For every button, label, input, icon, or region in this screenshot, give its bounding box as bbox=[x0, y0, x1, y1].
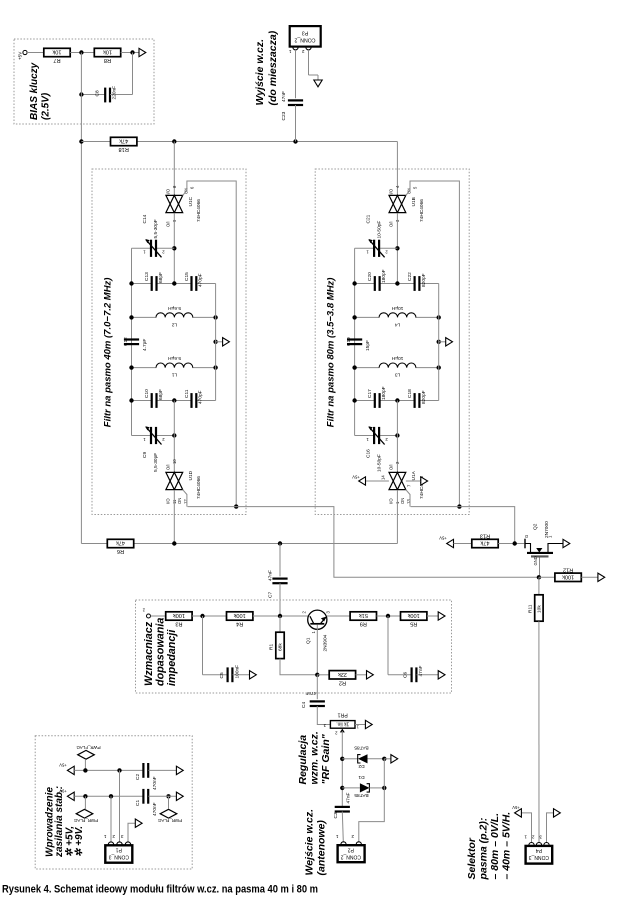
svg-text:C16: C16 bbox=[365, 449, 371, 458]
svg-text:10-50pF: 10-50pF bbox=[376, 221, 382, 239]
wire: P1 pin3 to ground arrow bbox=[128, 819, 142, 842]
node: D1 tap bbox=[340, 786, 344, 790]
svg-text:R13: R13 bbox=[480, 533, 490, 539]
svg-text:47nF: 47nF bbox=[305, 690, 316, 696]
svg-text:10µH: 10µH bbox=[391, 305, 403, 311]
node: R9/R5 junction bbox=[386, 614, 390, 618]
svg-text:C22: C22 bbox=[407, 272, 413, 281]
svg-text:R5: R5 bbox=[410, 621, 417, 627]
svg-text:47k: 47k bbox=[116, 540, 125, 546]
svg-text:O/I: O/I bbox=[389, 464, 394, 470]
BIAS kluczy dashed box bbox=[14, 39, 154, 124]
svg-text:+5V: +5V bbox=[18, 51, 23, 60]
+9V rail arrow bbox=[59, 789, 143, 801]
svg-text:R9: R9 bbox=[360, 621, 367, 627]
resistor R8 10k bbox=[94, 48, 139, 63]
svg-text:100k: 100k bbox=[173, 612, 185, 618]
svg-text:Q1: Q1 bbox=[306, 637, 312, 644]
svg-text:C4: C4 bbox=[301, 702, 307, 708]
svg-text:68pF: 68pF bbox=[158, 389, 164, 400]
svg-text:470pF: 470pF bbox=[198, 390, 204, 404]
svg-text:C12: C12 bbox=[123, 337, 129, 346]
PWR_FLAG upper bbox=[76, 745, 101, 770]
PWR_FLAG lower right bbox=[157, 809, 182, 823]
svg-text:R11: R11 bbox=[528, 604, 534, 613]
svg-text:180pF: 180pF bbox=[381, 269, 387, 283]
svg-text:BAT85: BAT85 bbox=[354, 792, 369, 798]
node: bus meets H_top bbox=[79, 139, 83, 143]
wire: U1A +5V pin 14 bbox=[352, 475, 389, 486]
svg-text:C2: C2 bbox=[135, 774, 141, 780]
capacitor C15 470pF (row1 right) bbox=[174, 272, 215, 291]
diode D1 BAT85 bbox=[342, 774, 384, 798]
80m filter dashed box bbox=[315, 169, 469, 515]
svg-text:1: 1 bbox=[524, 835, 527, 840]
svg-text:470pF: 470pF bbox=[198, 273, 204, 287]
wire: P4 pin1 to +5V arrow bbox=[512, 805, 531, 842]
svg-text:74HC4066: 74HC4066 bbox=[419, 199, 425, 222]
svg-text:C19: C19 bbox=[346, 337, 352, 346]
svg-text:Filtr na pasmo 80m (3.5−3.8 MH: Filtr na pasmo 80m (3.5−3.8 MHz) bbox=[326, 278, 337, 428]
svg-text:impedancji: impedancji bbox=[166, 629, 178, 686]
ground arrow below P3 bbox=[314, 80, 322, 87]
svg-text:Selektor: Selektor bbox=[466, 837, 478, 879]
node: R8 output junction bbox=[130, 50, 134, 54]
wire: center to U1D bbox=[173, 401, 175, 473]
transistor Q2 2N7000 bbox=[524, 521, 563, 577]
svg-text:2: 2 bbox=[112, 834, 115, 839]
svg-text:I/O: I/O bbox=[389, 188, 394, 194]
+5V rail arrow bbox=[59, 763, 143, 775]
svg-text:U1D: U1D bbox=[188, 470, 194, 480]
trimmer capacitor C16 10-50pF (bottom) bbox=[355, 426, 398, 472]
svg-text:1: 1 bbox=[289, 49, 292, 54]
node: trimmer junction bottom bbox=[395, 433, 399, 437]
svg-text:+5V: +5V bbox=[512, 805, 520, 810]
svg-text:C9: C9 bbox=[142, 452, 148, 458]
svg-text:L4: L4 bbox=[395, 322, 401, 328]
svg-text:10k: 10k bbox=[52, 49, 61, 55]
capacitor C20 180pF (row1 left) bbox=[355, 269, 398, 291]
node: emitter junction bbox=[315, 673, 319, 677]
node: ON bus bottom junction bbox=[234, 504, 238, 508]
node: base node junction bbox=[278, 614, 282, 618]
svg-text:C21: C21 bbox=[365, 214, 371, 223]
wire: filter right bus bbox=[438, 284, 440, 401]
svg-text:+9V: +9V bbox=[59, 789, 67, 794]
ground arrow mid right bbox=[213, 338, 229, 346]
svg-text:PWR_FLAG: PWR_FLAG bbox=[73, 818, 98, 823]
svg-text:C5: C5 bbox=[219, 672, 225, 678]
svg-text:D1: D1 bbox=[358, 774, 364, 780]
wire: P3 pin2 to ground arrow bbox=[309, 50, 319, 80]
svg-text:3: 3 bbox=[539, 835, 542, 840]
resistor R11 10k (vertical) bbox=[528, 577, 544, 842]
svg-text:C18: C18 bbox=[407, 389, 413, 398]
svg-text:68pF: 68pF bbox=[158, 272, 164, 283]
node: ON bus bottom junction bbox=[457, 504, 461, 508]
resistor R13 47k bbox=[439, 533, 524, 548]
svg-text:P4: P4 bbox=[536, 847, 542, 853]
svg-text:47nF: 47nF bbox=[418, 665, 424, 676]
node: D2 tap bbox=[340, 757, 344, 761]
label: Wyjscie w.cz. (do mieszacza) bbox=[254, 30, 279, 105]
capacitor C6 47nF bbox=[388, 616, 438, 682]
wire: filter left bus bbox=[131, 248, 133, 435]
trimmer capacitor C9 5,5-30pF (bottom) bbox=[132, 426, 175, 472]
capacitor C13 68pF (row1 left) bbox=[132, 272, 175, 291]
svg-text:– 40m – 5V/H.: – 40m – 5V/H. bbox=[501, 812, 513, 880]
resistor R1 68k (vertical) bbox=[269, 616, 318, 675]
svg-text:C1: C1 bbox=[135, 800, 141, 806]
svg-text:+5V: +5V bbox=[59, 763, 67, 768]
Wprowadzenie zasilania dashed box bbox=[35, 736, 192, 869]
svg-text:5,5-30pF: 5,5-30pF bbox=[153, 219, 159, 238]
connector P3 CONN_2 bbox=[289, 26, 321, 54]
net arrow right of R5 bbox=[438, 612, 445, 620]
svg-text:zasilania stab.:: zasilania stab.: bbox=[54, 786, 65, 858]
svg-text:PWR_FLAG: PWR_FLAG bbox=[76, 745, 101, 750]
svg-text:Wejście w.cz.: Wejście w.cz. bbox=[304, 809, 316, 876]
svg-text:O/I: O/I bbox=[166, 221, 171, 227]
svg-text:C17: C17 bbox=[367, 389, 373, 398]
wire: ON pin of U1A bbox=[406, 490, 410, 507]
net arrow right of D2 bbox=[384, 755, 397, 763]
node: row1 junctions bbox=[352, 281, 399, 285]
node: R3/R4 junction bbox=[200, 614, 204, 618]
svg-text:1: 1 bbox=[104, 834, 107, 839]
svg-text:C11: C11 bbox=[184, 389, 190, 398]
svg-text:R4: R4 bbox=[236, 621, 243, 627]
svg-text:R7: R7 bbox=[53, 57, 60, 63]
resistor R2 22k bbox=[317, 671, 366, 686]
BIAS output net arrow bbox=[139, 48, 146, 56]
switch U1C (top) bbox=[166, 142, 202, 228]
svg-text:P2: P2 bbox=[348, 846, 354, 852]
label: Regulacja wzm. w.cz. "RF Gain" bbox=[297, 731, 332, 784]
switch U1D (bottom) bbox=[166, 459, 202, 504]
svg-text:✲ +9V.: ✲ +9V. bbox=[74, 826, 85, 857]
svg-text:P3: P3 bbox=[302, 30, 308, 36]
node: trimmer junction top bbox=[172, 246, 176, 250]
net arrow right of PR1 bbox=[365, 720, 372, 728]
node: U1D line on H1 bbox=[172, 541, 176, 545]
svg-text:180pF: 180pF bbox=[381, 386, 387, 400]
svg-text:G: G bbox=[524, 535, 529, 538]
svg-text:I/O: I/O bbox=[166, 498, 171, 504]
node: D1 right junction bbox=[382, 786, 386, 790]
svg-text:BAT85: BAT85 bbox=[354, 745, 369, 751]
inductor L2 5.6&#181;H bbox=[132, 305, 216, 328]
capacitor C19 15pF (coupling, on left bus) bbox=[346, 337, 371, 351]
net arrow at Q2 drain bbox=[563, 539, 570, 547]
wire: diode return to P2 pin2 bbox=[359, 759, 385, 842]
svg-text:I/O: I/O bbox=[166, 188, 171, 194]
svg-text:wzm. w.cz.: wzm. w.cz. bbox=[309, 731, 321, 784]
svg-text:Wyjście w.cz.: Wyjście w.cz. bbox=[254, 39, 266, 106]
svg-text:BIAS kluczy: BIAS kluczy bbox=[29, 62, 40, 120]
svg-text:pasma (p.2):: pasma (p.2): bbox=[478, 818, 490, 881]
svg-text:2: 2 bbox=[302, 49, 305, 54]
svg-text:ON: ON bbox=[177, 498, 182, 504]
svg-text:R8: R8 bbox=[104, 57, 111, 63]
capacitor C10 68pF (row2 left) bbox=[132, 389, 175, 408]
+5V input pin bbox=[18, 50, 31, 60]
svg-text:C14: C14 bbox=[142, 214, 148, 223]
capacitor C11 470pF (row2 right) bbox=[174, 389, 215, 408]
net arrow right of C1 bbox=[176, 792, 183, 800]
svg-text:I/O: I/O bbox=[389, 498, 394, 504]
label: Selektor pasma bbox=[466, 812, 513, 881]
svg-text:(2.5V): (2.5V) bbox=[41, 92, 52, 120]
svg-text:C10: C10 bbox=[144, 389, 150, 398]
resistor R4 100k bbox=[227, 612, 309, 627]
svg-text:220nF: 220nF bbox=[112, 86, 118, 100]
wire: U1A pin 7 bbox=[406, 477, 428, 487]
svg-text:47nF: 47nF bbox=[346, 792, 352, 803]
svg-text:10: 10 bbox=[172, 459, 177, 464]
svg-text:100k: 100k bbox=[233, 612, 245, 618]
svg-text:CONN_2: CONN_2 bbox=[340, 853, 361, 859]
net arrow right of C6 bbox=[438, 671, 445, 679]
svg-text:4.7pF: 4.7pF bbox=[142, 339, 148, 351]
net arrow right of R2 bbox=[367, 671, 374, 679]
svg-text:L3: L3 bbox=[395, 372, 401, 378]
connector P2 CONN_2 bbox=[336, 834, 365, 862]
potentiometer PR1 1k lin. bbox=[323, 712, 365, 806]
wire: U1D output down bbox=[173, 490, 175, 544]
svg-text:74HC4066: 74HC4066 bbox=[196, 199, 202, 222]
capacitor C8 220nF bbox=[81, 53, 132, 103]
node: Q2 source node X bbox=[537, 575, 541, 579]
svg-text:47k: 47k bbox=[119, 138, 128, 144]
svg-text:R1: R1 bbox=[269, 644, 275, 650]
svg-text:74HC4066: 74HC4066 bbox=[196, 476, 202, 499]
svg-text:820pF: 820pF bbox=[421, 390, 427, 404]
svg-text:O/I: O/I bbox=[166, 464, 171, 470]
svg-text:CONN_2: CONN_2 bbox=[294, 37, 315, 43]
trimmer capacitor C21 10-50pF (top) bbox=[355, 214, 398, 257]
svg-text:47nF: 47nF bbox=[281, 91, 287, 102]
svg-text:U1C: U1C bbox=[188, 196, 194, 206]
amp input pin bbox=[142, 608, 166, 618]
svg-text:R2: R2 bbox=[339, 679, 346, 685]
svg-text:10-50pF: 10-50pF bbox=[376, 454, 382, 472]
capacitor C7 47nF bbox=[268, 544, 288, 617]
capacitor C5 100nF bbox=[203, 616, 250, 682]
svg-text:22k: 22k bbox=[338, 671, 347, 677]
inductor L3 10&#181;H bbox=[355, 355, 439, 378]
svg-text:(do mieszacza): (do mieszacza) bbox=[267, 30, 279, 105]
svg-text:68k: 68k bbox=[278, 643, 284, 651]
capacitor C2 470nF bbox=[135, 763, 176, 790]
Wzmacniacz dashed box bbox=[136, 600, 452, 693]
svg-text:U1B: U1B bbox=[411, 197, 417, 206]
node: +5V rail junctions bbox=[83, 768, 122, 772]
resistor R18 47k bbox=[111, 137, 137, 152]
svg-text:14: 14 bbox=[381, 475, 386, 480]
svg-text:R12: R12 bbox=[563, 566, 573, 572]
40m filter dashed box bbox=[92, 169, 246, 515]
svg-text:470nF: 470nF bbox=[152, 776, 158, 790]
svg-text:GND: GND bbox=[533, 556, 538, 565]
svg-text:R6: R6 bbox=[117, 548, 124, 554]
node: gate junction bbox=[513, 541, 517, 545]
svg-text:R18: R18 bbox=[119, 146, 129, 152]
svg-text:C23: C23 bbox=[281, 111, 287, 120]
svg-text:C3: C3 bbox=[333, 812, 339, 818]
resistor R3 100k bbox=[166, 612, 227, 627]
svg-text:47k: 47k bbox=[480, 540, 489, 546]
net arrow right of R12 bbox=[598, 573, 605, 581]
svg-text:(antenowe): (antenowe) bbox=[316, 820, 328, 876]
svg-text:U1A: U1A bbox=[411, 470, 417, 480]
svg-text:2: 2 bbox=[351, 834, 354, 839]
svg-text:5.6µH: 5.6µH bbox=[168, 305, 181, 311]
capacitor C18 820pF (row2 right) bbox=[397, 389, 438, 408]
svg-text:1k lin.: 1k lin. bbox=[336, 721, 349, 727]
resistor R9 51k bbox=[350, 612, 400, 627]
net arrow right of C2 bbox=[176, 766, 183, 774]
wire: 40m ON net to Q2 source node bbox=[188, 507, 539, 578]
svg-text:Filtr na pasmo 40m (7.0−7.2 MH: Filtr na pasmo 40m (7.0−7.2 MHz) bbox=[103, 278, 114, 428]
node: trimmer junction top bbox=[395, 246, 399, 250]
wire: ON bus of U1B bbox=[406, 181, 460, 507]
wire: BIAS vertical bus down to H1 bbox=[80, 53, 82, 544]
svg-text:L2: L2 bbox=[172, 322, 178, 328]
inductor L1 5.6&#181;H bbox=[132, 355, 216, 378]
capacitor C4 47nF bbox=[301, 675, 330, 725]
svg-text:100nF: 100nF bbox=[235, 665, 241, 679]
wire: filter left bus bbox=[354, 248, 356, 435]
svg-text:5,5-30pF: 5,5-30pF bbox=[153, 453, 159, 472]
node: D2 right junction bbox=[382, 757, 386, 761]
node: row2 junctions bbox=[352, 398, 399, 402]
svg-text:P1: P1 bbox=[116, 847, 122, 853]
svg-text:"RF Gain": "RF Gain" bbox=[320, 733, 332, 784]
resistor R5 100k bbox=[401, 612, 439, 627]
svg-text:15pF: 15pF bbox=[365, 340, 371, 351]
net arrow right of C5 bbox=[250, 671, 257, 679]
trimmer capacitor C14 5,5-30pF (top) bbox=[132, 214, 175, 257]
svg-text:dopasowania: dopasowania bbox=[155, 618, 167, 686]
transistor Q1 2N3904 bbox=[302, 610, 351, 675]
svg-text:C7: C7 bbox=[268, 592, 274, 598]
node: +9V rail junctions bbox=[83, 794, 170, 798]
svg-text:820pF: 820pF bbox=[421, 273, 427, 287]
node: 40m branch on H_top bbox=[172, 139, 176, 143]
svg-text:2N3904: 2N3904 bbox=[323, 634, 329, 651]
svg-text:10µH: 10µH bbox=[391, 355, 403, 361]
svg-text:O/I: O/I bbox=[389, 221, 394, 227]
svg-text:D2: D2 bbox=[358, 763, 364, 769]
svg-text:2: 2 bbox=[532, 835, 535, 840]
svg-text:2N7000: 2N7000 bbox=[544, 521, 550, 538]
svg-text:C15: C15 bbox=[184, 272, 190, 281]
svg-text:10k: 10k bbox=[537, 605, 543, 613]
resistor R12 100k bbox=[539, 566, 598, 581]
svg-text:L1: L1 bbox=[172, 372, 178, 378]
connector P1 CONN_3 bbox=[104, 834, 133, 863]
wire: H1 main rail bbox=[81, 543, 397, 545]
capacitor C22 820pF (row1 right) bbox=[397, 272, 438, 291]
node: C8 left junction bbox=[79, 92, 83, 96]
svg-text:1: 1 bbox=[336, 834, 339, 839]
svg-text:C6: C6 bbox=[403, 672, 409, 678]
svg-text:+5V: +5V bbox=[352, 475, 360, 480]
node: trimmer junction bottom bbox=[172, 433, 176, 437]
wire: U1B output down bbox=[396, 213, 398, 284]
wire: filter right bus bbox=[215, 284, 217, 401]
wire: H_top horizontal rail bbox=[81, 141, 397, 143]
wire: P4 pin3 to ground arrow bbox=[547, 809, 561, 843]
wire: ON bus of U1C bbox=[183, 181, 237, 507]
svg-text:CONN_3: CONN_3 bbox=[108, 854, 129, 860]
PWR_FLAG lower left bbox=[73, 796, 98, 823]
inductor L4 10&#181;H bbox=[355, 305, 439, 328]
node: row2 junctions bbox=[129, 398, 176, 402]
node: C7 branch on H1 bbox=[278, 541, 282, 545]
svg-text:Q2: Q2 bbox=[533, 523, 539, 530]
svg-text:100k: 100k bbox=[407, 612, 419, 618]
svg-text:+5V: +5V bbox=[439, 536, 447, 541]
svg-text:47nF: 47nF bbox=[268, 570, 274, 581]
svg-text:ON: ON bbox=[400, 498, 405, 504]
svg-text:– 80m – 0V/L.: – 80m – 0V/L. bbox=[489, 813, 501, 880]
switch U1B (top) bbox=[389, 142, 425, 228]
capacitor C23 47nF bbox=[281, 50, 303, 142]
capacitor C12 4.7pF (coupling, on left bus) bbox=[123, 337, 148, 351]
diode D2 BAT85 bbox=[342, 745, 384, 769]
resistor R6 47k bbox=[107, 539, 133, 554]
node: R7/R8 junction bbox=[79, 50, 83, 54]
wire: 80m ON net to Q2 gate bbox=[411, 507, 515, 544]
ground arrow mid right bbox=[437, 338, 453, 346]
capacitor C3 47nF bbox=[333, 792, 352, 841]
wire: U1A output down bbox=[396, 490, 398, 544]
svg-text:Rysunek 4. Schemat ideowy modu: Rysunek 4. Schemat ideowy modułu filtrów… bbox=[2, 884, 318, 896]
resistor R7 10k bbox=[27, 48, 94, 63]
svg-text:10k: 10k bbox=[103, 49, 112, 55]
svg-text:R3: R3 bbox=[175, 621, 182, 627]
svg-text:5.6µH: 5.6µH bbox=[168, 355, 181, 361]
svg-text:C8: C8 bbox=[95, 90, 101, 96]
capacitor C17 180pF (row2 left) bbox=[355, 386, 398, 408]
switch U1A (bottom) bbox=[389, 461, 425, 504]
svg-text:470nF: 470nF bbox=[152, 802, 158, 816]
svg-text:Wzmacniacz: Wzmacniacz bbox=[143, 621, 155, 686]
svg-text:C13: C13 bbox=[144, 272, 150, 281]
wire: U1C output down bbox=[173, 213, 175, 284]
wire: P1 pin2 to +5V bbox=[119, 770, 121, 842]
svg-text:C20: C20 bbox=[367, 272, 373, 281]
label: Wejscie w.cz. (antenowe) bbox=[304, 809, 328, 876]
svg-text:CONN_3: CONN_3 bbox=[529, 854, 550, 860]
wire: ON pin of U1D bbox=[183, 490, 187, 507]
svg-text:3: 3 bbox=[121, 834, 124, 839]
svg-text:100k: 100k bbox=[562, 573, 574, 579]
svg-text:Regulacja: Regulacja bbox=[297, 735, 309, 785]
wire: center to U1A bbox=[396, 401, 398, 473]
svg-text:51k: 51k bbox=[359, 612, 368, 618]
wire: P1 pin1 to +9V bbox=[110, 796, 112, 842]
svg-text:PR1: PR1 bbox=[338, 712, 348, 718]
node: C23 branch on H_top bbox=[293, 139, 297, 143]
svg-text:PWR_FLAG: PWR_FLAG bbox=[157, 818, 182, 823]
node: row1 junctions bbox=[129, 281, 176, 285]
connector P4 CONN_3 bbox=[524, 835, 552, 864]
capacitor C1 470nF bbox=[135, 789, 176, 816]
